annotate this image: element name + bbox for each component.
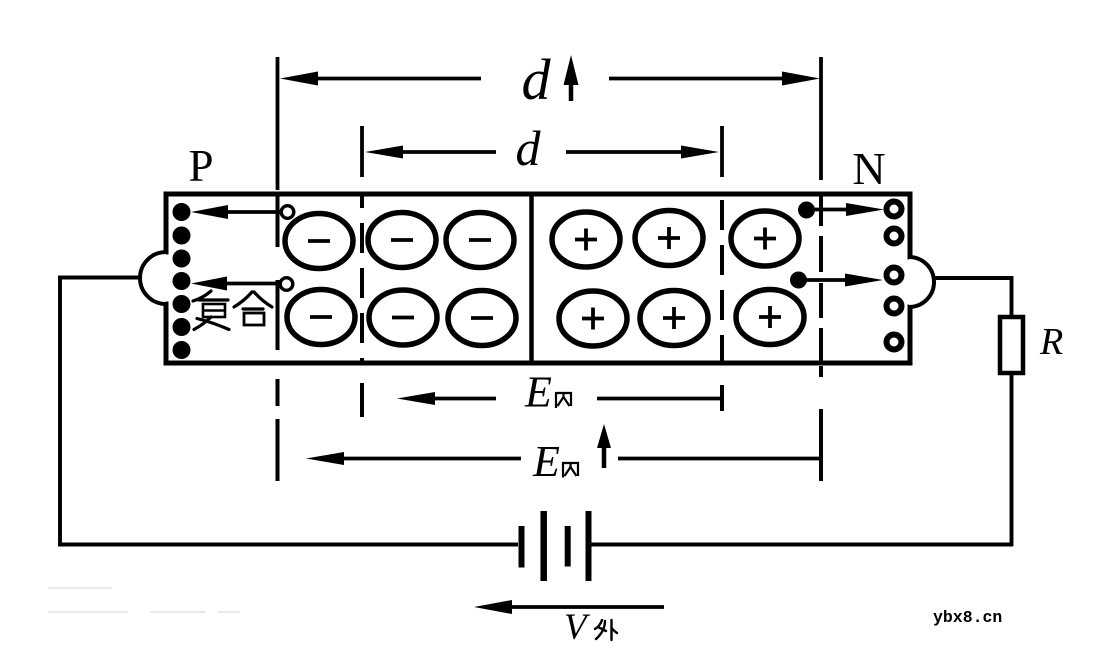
svg-text:E: E <box>524 368 552 417</box>
svg-text:d: d <box>522 47 552 112</box>
svg-text:P: P <box>188 141 213 191</box>
svg-text:d: d <box>516 120 542 176</box>
svg-text:ybx8.cn: ybx8.cn <box>933 608 1002 627</box>
svg-text:E: E <box>532 437 560 486</box>
svg-text:R: R <box>1039 321 1063 363</box>
svg-text:N: N <box>852 143 885 194</box>
